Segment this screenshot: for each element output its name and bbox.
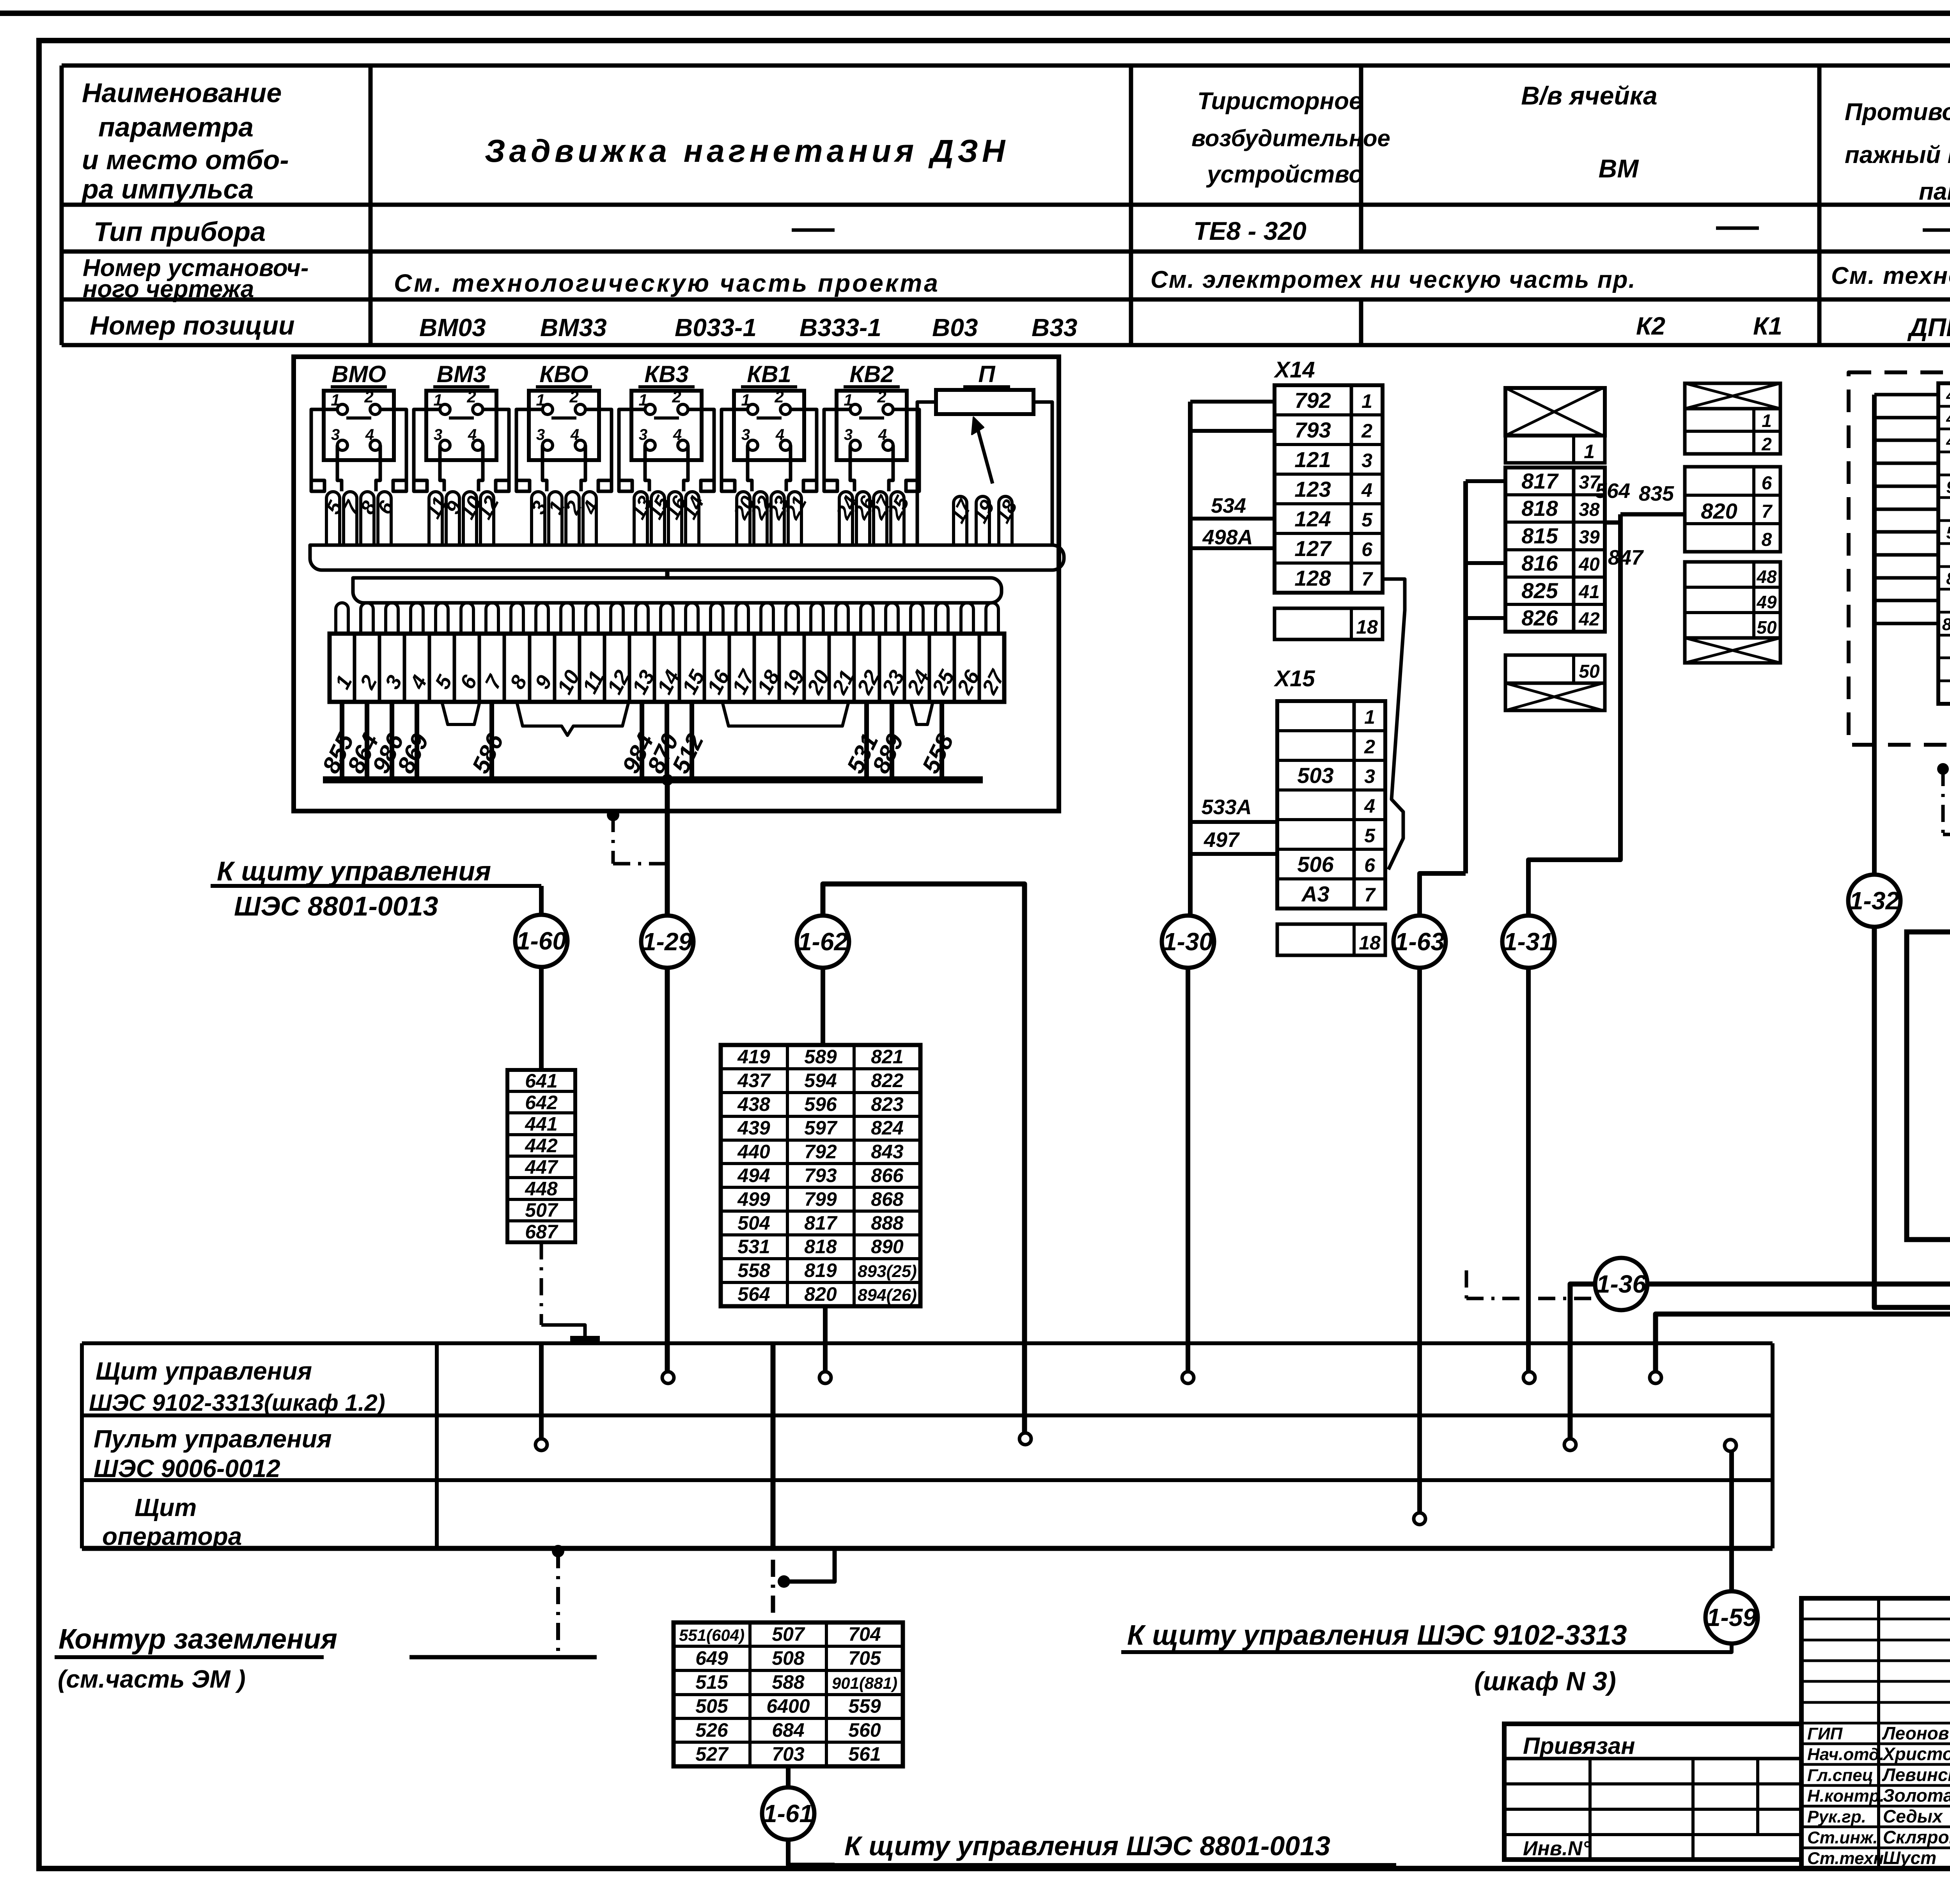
svg-text:825: 825: [1521, 578, 1558, 603]
under-strip combs: [442, 702, 480, 724]
ref circle 1-29: [641, 916, 693, 968]
svg-text:4: 4: [1361, 479, 1372, 501]
lead 19 of П: [976, 496, 989, 545]
svg-text:893(25): 893(25): [858, 1262, 917, 1281]
svg-text:515: 515: [695, 1671, 729, 1693]
wire 1-60 to terminal table: [539, 965, 544, 1070]
svg-text:3: 3: [1361, 450, 1372, 471]
svg-text:18: 18: [1359, 932, 1381, 954]
svg-text:Христофоров: Христофоров: [1882, 1744, 1950, 1764]
panels bus table: [82, 1341, 1773, 1345]
cable bus inside block: [323, 776, 983, 783]
ref circle 1-62: [797, 916, 849, 968]
svg-text:866: 866: [871, 1165, 904, 1187]
svg-text:(см.часть ЭМ ): (см.часть ЭМ ): [58, 1665, 246, 1693]
svg-text:407 (2): 407 (2): [1946, 409, 1950, 428]
svg-text:439: 439: [737, 1117, 770, 1139]
svg-text:894(26): 894(26): [858, 1286, 917, 1305]
ground tap dash-dot at block bottom: [607, 809, 619, 821]
svg-text:704: 704: [848, 1623, 881, 1645]
svg-text:ШЭС 8801-0013: ШЭС 8801-0013: [234, 891, 438, 921]
svg-text:551(604): 551(604): [679, 1626, 745, 1644]
lead 22 of КВ1: [754, 492, 767, 545]
terminal on Щит оператора row (1-63): [1414, 1513, 1425, 1525]
ref circle 1-60: [515, 915, 567, 967]
terminal on Пульт управления row (1-60): [535, 1439, 547, 1451]
svg-text:128: 128: [1294, 566, 1331, 590]
svg-text:П: П: [978, 361, 996, 387]
X15 pin18 box: [1277, 924, 1385, 955]
svg-text:В03: В03: [932, 313, 978, 342]
wire 984 (terminal 13): [640, 702, 644, 780]
svg-text:КВ2: КВ2: [849, 361, 894, 387]
lead 6 of ВМО: [378, 492, 391, 545]
svg-text:497: 497: [1204, 828, 1240, 852]
lead 16 of КВ3: [668, 492, 682, 545]
svg-text:18: 18: [1356, 616, 1378, 638]
svg-text:1: 1: [433, 391, 442, 409]
svg-text:См. технологическую часть пр: См. технологическую часть проекта: [394, 269, 940, 297]
svg-text:Щит управления: Щит управления: [96, 1357, 312, 1385]
ДПК dashed enclosure: [1849, 372, 1950, 745]
svg-text:и место отбо-: и место отбо-: [82, 145, 289, 175]
svg-text:КВО: КВО: [539, 361, 588, 387]
svg-text:440: 440: [737, 1141, 770, 1163]
svg-text:818: 818: [804, 1236, 837, 1258]
svg-text:2: 2: [774, 388, 784, 406]
svg-text:878 (9): 878 (9): [1946, 569, 1950, 588]
shield dash-dot 1-36: [1465, 1270, 1468, 1298]
svg-text:822: 822: [871, 1070, 904, 1091]
svg-text:447: 447: [525, 1156, 558, 1178]
lead 9 of ВМ3: [446, 492, 459, 545]
К1 connector crossed box bottom: [1685, 638, 1780, 663]
terminal on Пульт управления row (1-59): [1725, 1440, 1736, 1451]
К1 connector crossed box top: [1685, 383, 1780, 409]
svg-text:1: 1: [1364, 706, 1375, 728]
svg-text:594: 594: [804, 1070, 837, 1091]
svg-text:121: 121: [1294, 447, 1331, 472]
ref circle 1-63: [1393, 916, 1446, 968]
svg-text:Наименование: Наименование: [82, 78, 282, 108]
svg-text:2: 2: [1761, 434, 1772, 454]
terminal on Щит управления row (1-31): [1523, 1372, 1535, 1383]
ref circle 1-36: [1595, 1258, 1647, 1310]
svg-text:Контур заземления: Контур заземления: [58, 1624, 337, 1655]
svg-text:3: 3: [639, 426, 647, 443]
svg-text:1: 1: [844, 391, 853, 409]
harness to strip connector wire: [665, 570, 670, 578]
svg-text:4: 4: [878, 426, 887, 443]
svg-text:Тиристорное: Тиристорное: [1197, 88, 1362, 115]
svg-text:ГИП: ГИП: [1807, 1724, 1843, 1743]
svg-text:1: 1: [1762, 411, 1772, 431]
wire 889 (terminal 23): [890, 702, 894, 780]
lead 12 of ВМ3: [480, 492, 494, 545]
svg-text:Щит: Щит: [135, 1493, 197, 1521]
svg-text:устройство: устройство: [1206, 161, 1363, 188]
svg-text:124: 124: [1294, 507, 1331, 531]
svg-text:861 (11): 861 (11): [1942, 615, 1950, 634]
svg-text:1: 1: [1361, 390, 1372, 412]
cable harness channel under contact groups: [310, 545, 1064, 570]
svg-text:ШЭС 9102-3313(шкаф 1.2): ШЭС 9102-3313(шкаф 1.2): [89, 1390, 385, 1416]
wire down to 1-31: [1528, 514, 1620, 917]
П leads 17 19 18: [917, 402, 936, 545]
bundle line X14 to X15: [1383, 579, 1405, 870]
lead 13 of КВ3: [634, 492, 647, 545]
terminal on Пульт управления row (bypass): [1019, 1433, 1031, 1445]
svg-text:847: 847: [1608, 546, 1644, 569]
svg-text:38: 38: [1579, 499, 1600, 520]
svg-text:Ст.инж.: Ст.инж.: [1807, 1828, 1878, 1847]
svg-text:К щиту управления ШЭС 9102-3: К щиту управления ШЭС 9102-3313: [1127, 1620, 1627, 1651]
svg-text:Гл.спец: Гл.спец: [1807, 1766, 1873, 1785]
X14 pin18 box: [1275, 608, 1383, 639]
svg-text:507: 507: [525, 1199, 558, 1221]
ВМ connector main rows 37-42: [1505, 468, 1605, 632]
svg-text:4: 4: [365, 426, 374, 443]
label К щиту управления ШЭС 8801-0013 (bottom): [788, 1838, 835, 1865]
svg-text:506: 506: [1297, 852, 1334, 877]
svg-text:Инв.N°: Инв.N°: [1523, 1837, 1591, 1860]
lead 10 of ВМ3: [463, 492, 477, 545]
svg-text:868: 868: [871, 1188, 904, 1210]
ВМ connector crossed box top: [1505, 388, 1605, 436]
svg-text:А3: А3: [1301, 882, 1330, 906]
lead 7 of ВМО: [344, 492, 357, 545]
jumper hook at bus bottom: [784, 1548, 835, 1582]
svg-text:1: 1: [331, 391, 340, 409]
svg-text:1-32: 1-32: [1849, 887, 1899, 915]
svg-text:оператора: оператора: [102, 1522, 242, 1550]
svg-text:Леонов: Леонов: [1882, 1723, 1949, 1743]
svg-text:419: 419: [737, 1046, 770, 1068]
svg-text:4: 4: [673, 426, 682, 443]
terminal on Щит управления row (1-35): [1650, 1372, 1661, 1383]
svg-text:437: 437: [737, 1070, 771, 1091]
svg-text:642: 642: [525, 1091, 558, 1113]
svg-text:5: 5: [1361, 509, 1373, 531]
svg-text:3: 3: [331, 426, 340, 443]
lead 8 of ВМО: [361, 492, 374, 545]
wire to 1-60: [539, 886, 544, 916]
wire 986 (terminal 3): [390, 702, 394, 780]
svg-text:параметра: параметра: [98, 112, 253, 142]
svg-text:См. технологическую часть пр: См. технологическую часть пр: [1831, 262, 1950, 289]
lead 23 of КВ1: [771, 492, 784, 545]
svg-text:793: 793: [804, 1165, 837, 1187]
wire 1-36 left leg: [1570, 1284, 1597, 1439]
svg-text:588: 588: [772, 1671, 805, 1693]
svg-text:684: 684: [772, 1719, 804, 1741]
svg-text:820: 820: [804, 1283, 837, 1305]
svg-text:890: 890: [871, 1236, 904, 1258]
ВМ connector pin1 row: [1505, 436, 1605, 463]
wire 1-30 to Щит управления row: [1186, 966, 1190, 1372]
svg-text:ТЕ8 - 320: ТЕ8 - 320: [1193, 216, 1306, 245]
lead 20 of КВ1: [737, 492, 750, 545]
svg-text:См. электротех ни ческую част: См. электротех ни ческую часть пр.: [1150, 266, 1636, 293]
lead 27 of КВ2: [874, 492, 887, 545]
svg-text:2: 2: [569, 388, 578, 406]
svg-text:560: 560: [848, 1719, 881, 1741]
lead 15 of КВ3: [651, 492, 665, 545]
svg-text:408 (3): 408 (3): [1946, 432, 1950, 451]
row Тип прибора: dashes and ТЕ8-320: [792, 228, 835, 232]
svg-text:Нач.отд.: Нач.отд.: [1807, 1745, 1884, 1764]
svg-text:843: 843: [871, 1141, 904, 1163]
svg-text:888: 888: [871, 1212, 904, 1234]
svg-text:Склярова: Склярова: [1883, 1827, 1950, 1847]
lead 4 of КВО: [583, 492, 596, 545]
wire table to Щит управления row: [823, 1306, 828, 1372]
svg-text:40: 40: [1578, 554, 1600, 575]
svg-text:5: 5: [1364, 825, 1376, 847]
svg-text:пажный кла-: пажный кла-: [1845, 142, 1950, 168]
svg-text:123: 123: [1294, 477, 1331, 501]
svg-text:Тип прибора: Тип прибора: [94, 216, 266, 247]
svg-text:819: 819: [804, 1259, 837, 1281]
svg-text:406 (1): 406 (1): [1946, 386, 1950, 405]
cable wrap upper-left (1-32 route): [1874, 925, 1950, 1307]
svg-text:7: 7: [1364, 884, 1376, 906]
svg-text:498А: 498А: [1202, 526, 1253, 549]
terminal on Щит управления row (1-30): [1182, 1372, 1194, 1383]
lead 17 of П: [954, 496, 967, 545]
wire 586 (terminal 7): [489, 702, 494, 780]
svg-text:2: 2: [1364, 736, 1375, 758]
svg-text:705: 705: [848, 1647, 881, 1669]
svg-text:823: 823: [871, 1093, 904, 1115]
wire 1-62 to 3-col table: [821, 966, 825, 1045]
svg-text:ВМО: ВМО: [331, 361, 386, 387]
strip top fingers: [336, 603, 348, 634]
svg-text:649: 649: [695, 1647, 728, 1669]
lead 1 of КВО: [549, 492, 562, 545]
svg-text:1: 1: [741, 391, 750, 409]
wire 1-60 net to Пульт управления row: [539, 1345, 544, 1439]
svg-text:пан: пан: [1919, 178, 1950, 205]
svg-text:3: 3: [844, 426, 853, 443]
svg-text:2: 2: [877, 388, 886, 406]
ref circle 1-31: [1502, 916, 1555, 968]
wire 531 (terminal 22): [864, 702, 869, 780]
svg-text:3: 3: [1364, 765, 1375, 787]
svg-text:ДПК: ДПК: [1907, 313, 1950, 342]
svg-text:49: 49: [1756, 592, 1777, 612]
svg-text:494: 494: [737, 1165, 770, 1187]
wire bus to 551-table: [771, 1343, 776, 1548]
svg-text:448: 448: [525, 1178, 558, 1199]
svg-text:703: 703: [772, 1743, 805, 1765]
svg-text:3: 3: [741, 426, 750, 443]
svg-text:К2: К2: [1636, 312, 1665, 340]
svg-text:1: 1: [638, 391, 647, 409]
ДПК terminal table: [1938, 383, 1950, 704]
device block (Задвижка ДЗН wiring box): [294, 357, 1059, 811]
long wire to 1-30: [1188, 402, 1193, 917]
svg-text:Номер позиции: Номер позиции: [90, 311, 295, 340]
svg-text:42: 42: [1578, 609, 1600, 630]
svg-text:1-62: 1-62: [798, 928, 848, 956]
svg-text:39: 39: [1579, 527, 1600, 547]
svg-text:1-30: 1-30: [1163, 928, 1213, 956]
lead 18 of П: [999, 496, 1012, 545]
svg-text:К1: К1: [1753, 312, 1782, 340]
wire 512 (terminal 15): [690, 702, 694, 780]
dash-dot to ground: [552, 1545, 564, 1557]
svg-text:(шкаф N 3): (шкаф N 3): [1474, 1667, 1616, 1696]
svg-text:48: 48: [1756, 567, 1777, 587]
dash-dot below 641-table with ground hook: [540, 1242, 543, 1325]
svg-text:561: 561: [848, 1743, 881, 1765]
svg-text:В333-1: В333-1: [799, 313, 881, 342]
terminal on Щит управления row (1-62): [819, 1372, 831, 1383]
svg-text:Золотарева: Золотарева: [1883, 1785, 1950, 1806]
svg-text:ВМ: ВМ: [1599, 154, 1640, 183]
junction on cable bus: [661, 774, 673, 786]
svg-text:793: 793: [1294, 418, 1331, 442]
svg-text:818: 818: [1521, 496, 1558, 521]
svg-text:7: 7: [1361, 568, 1373, 590]
svg-text:438: 438: [737, 1093, 770, 1115]
wire 1-63 to Щит оператора row: [1417, 966, 1422, 1513]
svg-text:50: 50: [1757, 617, 1777, 638]
terminal table 551(604)...: [674, 1622, 903, 1766]
wire 1-36 right into КСК box: [1646, 1050, 1950, 1284]
svg-text:3: 3: [434, 426, 442, 443]
svg-text:2: 2: [364, 388, 373, 406]
svg-text:Противопом-: Противопом-: [1845, 99, 1950, 126]
svg-text:558: 558: [737, 1259, 770, 1281]
svg-text:ВМ33: ВМ33: [540, 313, 607, 342]
svg-text:6400: 6400: [766, 1695, 810, 1717]
lead 26 of КВ2: [856, 492, 870, 545]
lead 25 of КВ2: [891, 492, 904, 545]
svg-text:817: 817: [1521, 469, 1559, 493]
wire 870 (terminal 14): [665, 702, 669, 780]
svg-text:507: 507: [772, 1623, 805, 1645]
svg-text:2: 2: [1361, 420, 1372, 442]
svg-text:504: 504: [737, 1212, 770, 1234]
svg-text:792: 792: [1294, 388, 1331, 413]
svg-text:КВ1: КВ1: [747, 361, 791, 387]
ground contour line: [409, 1655, 597, 1660]
svg-text:Седых: Седых: [1883, 1806, 1943, 1826]
svg-text:ВМ3: ВМ3: [437, 361, 486, 387]
svg-text:К щиту управления: К щиту управления: [217, 856, 491, 886]
lead 11 of ВМ3: [429, 492, 442, 545]
svg-text:559: 559: [848, 1695, 881, 1717]
svg-text:503: 503: [1297, 763, 1333, 788]
svg-text:КВ3: КВ3: [644, 361, 689, 387]
svg-text:1: 1: [1584, 441, 1595, 462]
lead 2 of КВО: [566, 492, 579, 545]
scan edge bar top: [0, 11, 1950, 16]
svg-text:505: 505: [695, 1695, 729, 1717]
terminal table 641..687: [507, 1070, 575, 1242]
К1 pins 1,2: [1685, 409, 1780, 454]
svg-text:X15: X15: [1273, 666, 1315, 691]
svg-text:В033-1: В033-1: [675, 313, 757, 342]
ref circle 1-32: [1848, 875, 1900, 927]
svg-text:1-61: 1-61: [763, 1800, 813, 1828]
svg-text:4: 4: [570, 426, 579, 443]
К1 pins 48,49,50: [1685, 562, 1780, 638]
svg-text:824: 824: [871, 1117, 903, 1139]
wires to X14 pins 1,2: [1190, 400, 1275, 404]
svg-text:441: 441: [525, 1113, 557, 1135]
svg-text:534: 534: [1211, 494, 1246, 517]
svg-text:1-59: 1-59: [1707, 1603, 1757, 1631]
wire 558 (terminal 25): [940, 702, 944, 780]
wire 1-31 to Щит управления row: [1526, 966, 1531, 1372]
svg-text:4: 4: [775, 426, 784, 443]
svg-text:826: 826: [1521, 606, 1558, 630]
svg-text:2: 2: [466, 388, 476, 406]
lead 24 of КВ2: [839, 492, 853, 545]
strip top comb channel: [353, 578, 1002, 603]
svg-text:50: 50: [1579, 661, 1600, 682]
svg-text:2: 2: [672, 388, 681, 406]
svg-text:В/в ячейка: В/в ячейка: [1521, 81, 1657, 110]
svg-text:597: 597: [804, 1117, 838, 1139]
svg-text:41: 41: [1578, 582, 1599, 602]
svg-text:возбудительное: возбудительное: [1191, 125, 1390, 151]
svg-text:817: 817: [804, 1212, 838, 1234]
terminal on Пульт управления row (1-36): [1564, 1439, 1576, 1451]
svg-text:Левинский: Левинский: [1882, 1764, 1950, 1785]
svg-text:1-63: 1-63: [1395, 928, 1445, 956]
wire to 1-61: [786, 1766, 791, 1789]
svg-text:4: 4: [1364, 795, 1375, 817]
svg-text:Рук.гр.: Рук.гр.: [1807, 1807, 1866, 1826]
svg-text:974 (5): 974 (5): [1946, 478, 1950, 497]
svg-text:3: 3: [536, 426, 545, 443]
svg-text:596: 596: [804, 1093, 837, 1115]
svg-text:526: 526: [695, 1719, 729, 1741]
wire 1-29 to bus row1: [665, 966, 670, 1372]
svg-text:564: 564: [1595, 479, 1630, 503]
wire from strip to control panel (1-29): [665, 780, 670, 917]
ref circle 1-30: [1162, 916, 1214, 968]
svg-text:533А: 533А: [1201, 795, 1252, 819]
svg-text:820: 820: [1701, 499, 1737, 523]
svg-text:821: 821: [871, 1046, 903, 1068]
svg-text:4: 4: [468, 426, 477, 443]
svg-text:Ст.техн.: Ст.техн.: [1807, 1849, 1888, 1868]
svg-text:X14: X14: [1273, 357, 1315, 383]
shield dash-dot ДПК: [1937, 763, 1949, 775]
wire 1-62 bypass to Пульт управления row: [823, 884, 1025, 1433]
svg-text:Привязан: Привязан: [1523, 1733, 1635, 1759]
svg-text:527: 527: [695, 1743, 729, 1765]
lead 5 of ВМО: [326, 492, 340, 545]
svg-text:564 (7): 564 (7): [1946, 523, 1950, 542]
svg-text:7: 7: [1762, 501, 1773, 522]
terminal strip 1..27: [330, 634, 1004, 702]
lead 14 of КВ3: [686, 492, 699, 545]
svg-text:К щиту управления ШЭС 8801: К щиту управления ШЭС 8801-0013: [844, 1831, 1330, 1861]
svg-text:8: 8: [1762, 530, 1772, 550]
Привязан box: [1504, 1724, 1801, 1860]
svg-text:Задвижка нагнетания ДЗН: Задвижка нагнетания ДЗН: [485, 133, 1009, 169]
svg-text:508: 508: [772, 1647, 805, 1669]
П wiper arrow: [976, 422, 993, 484]
svg-text:6: 6: [1762, 473, 1772, 494]
wire to 1-63: [1420, 873, 1466, 917]
